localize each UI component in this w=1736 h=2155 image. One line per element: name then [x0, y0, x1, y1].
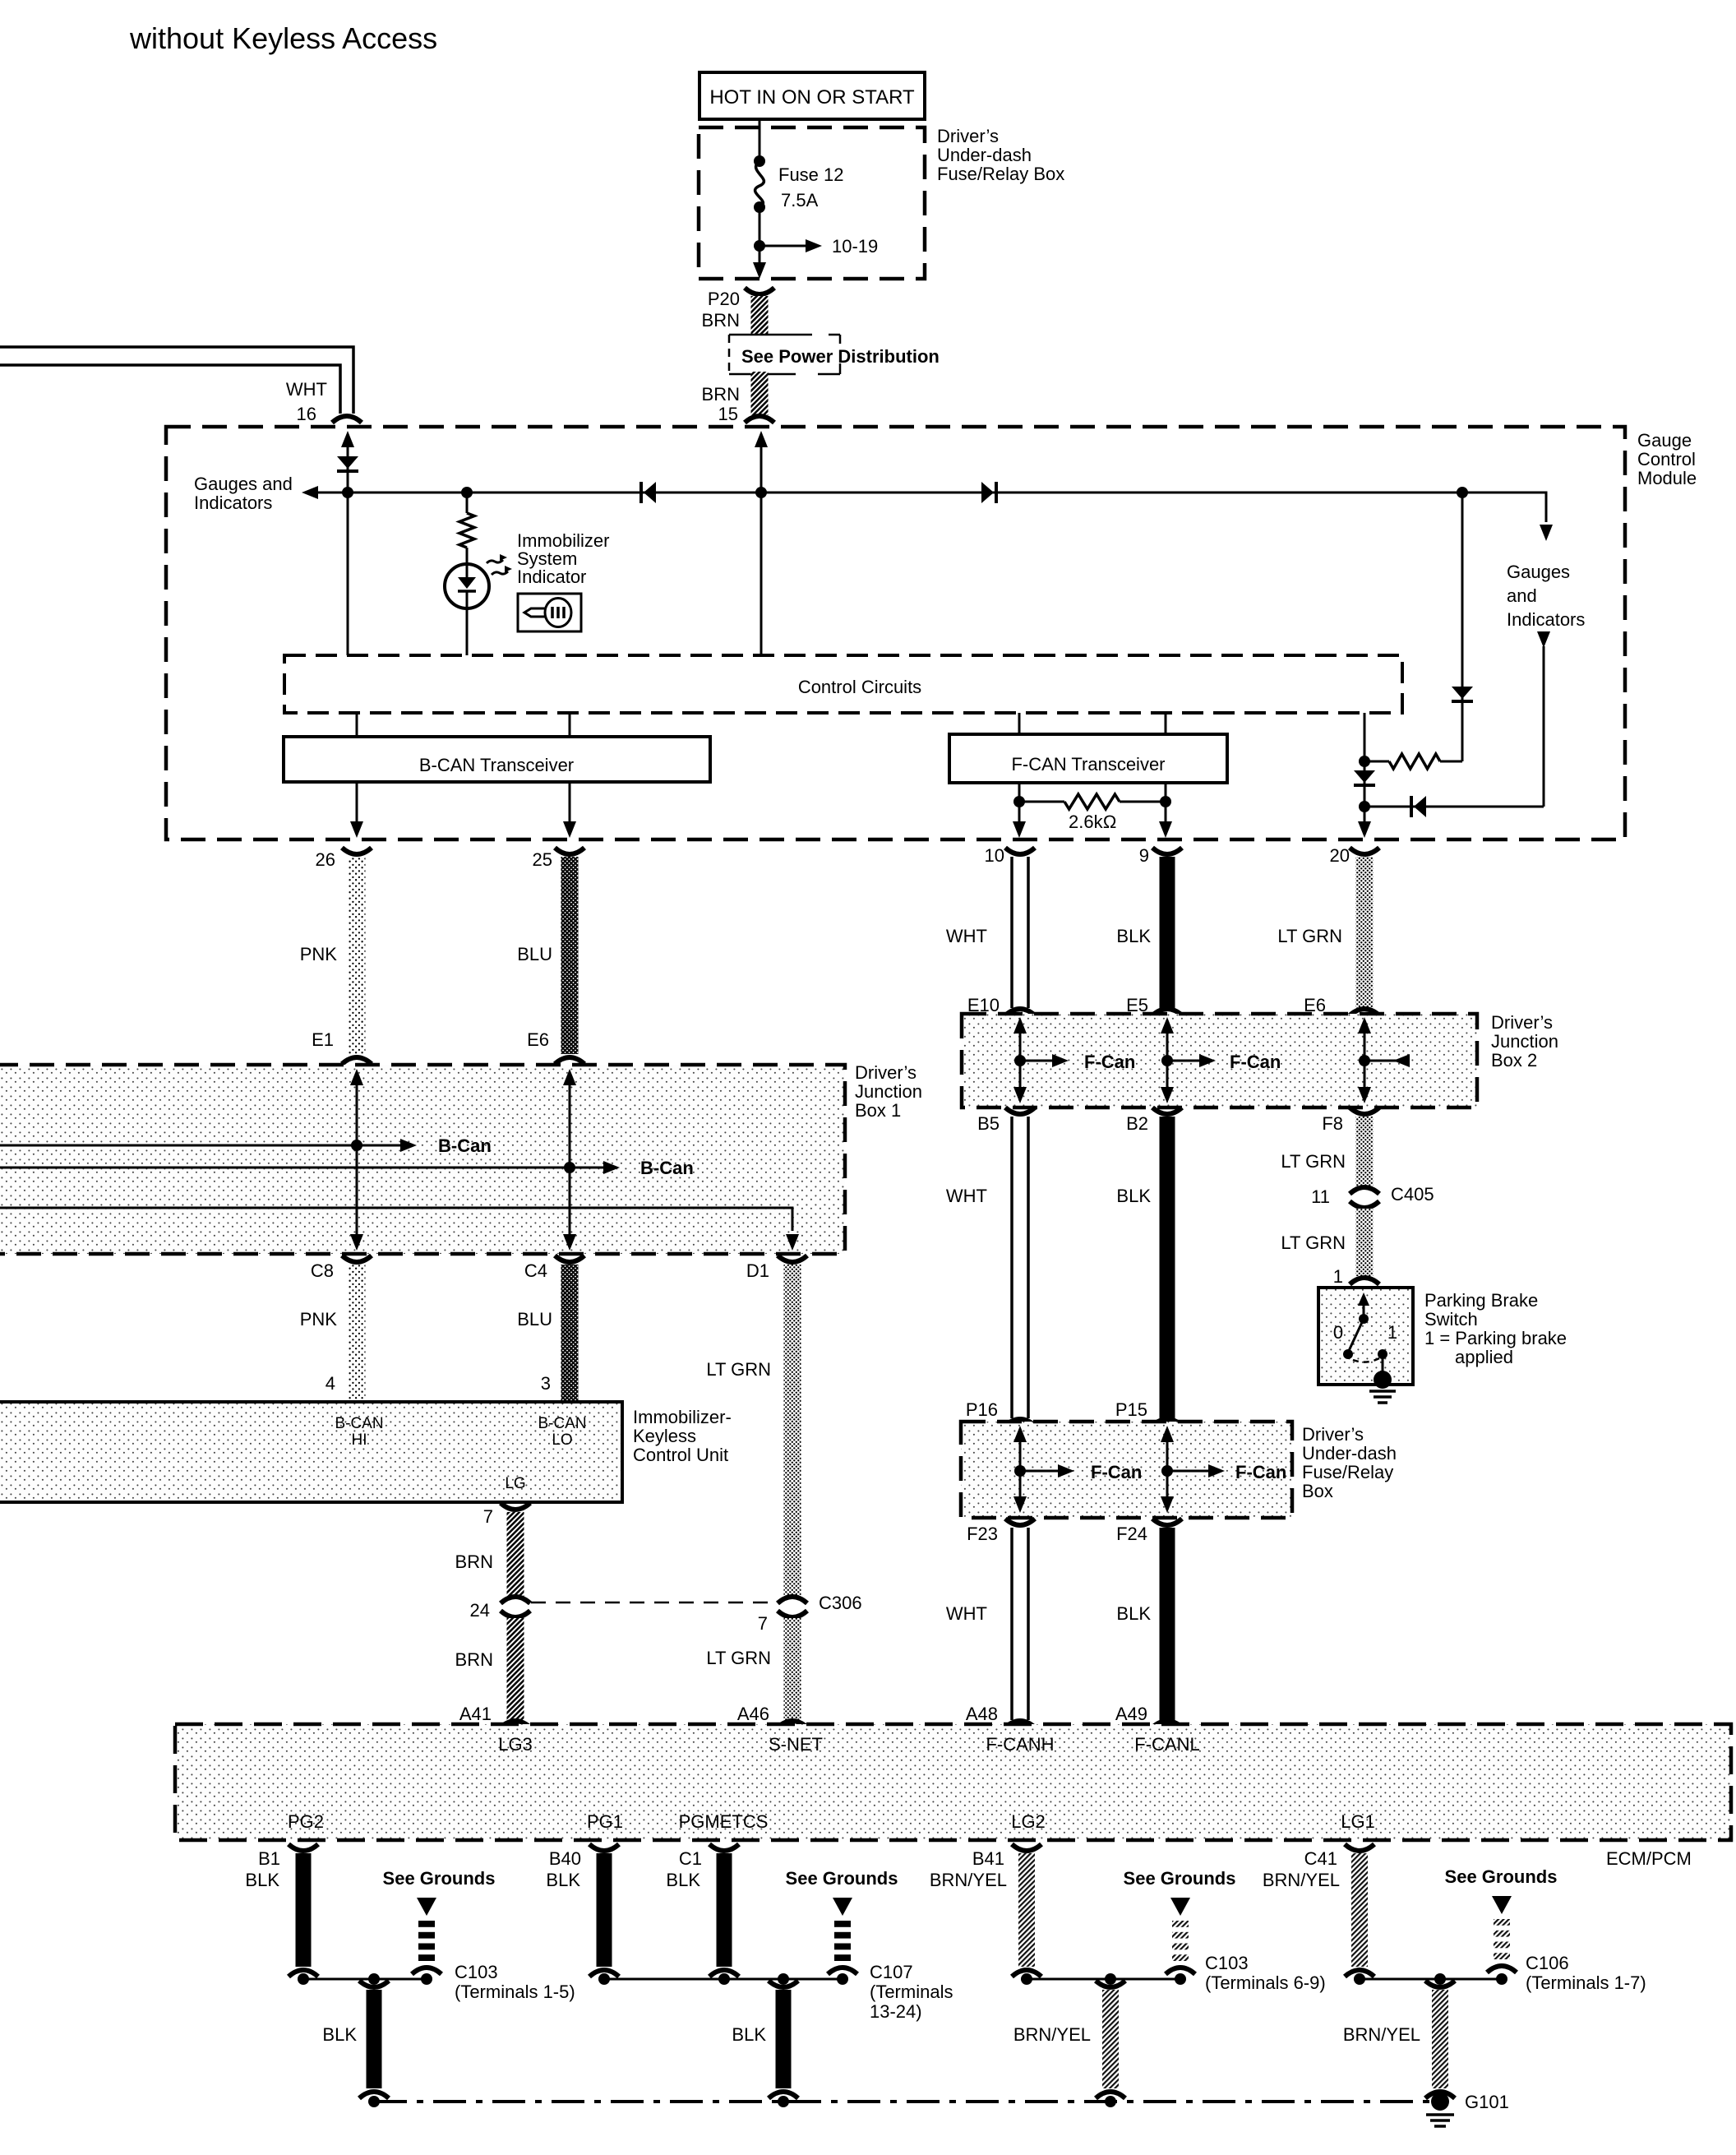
svg-text:C1: C1 — [679, 1848, 702, 1869]
svg-text:LT GRN: LT GRN — [1281, 1151, 1346, 1172]
wire drop1 BLK — [367, 1990, 382, 2088]
diode on bus left — [644, 482, 656, 503]
ground link line 1 — [303, 1978, 429, 1981]
wire pin15 branch — [755, 431, 768, 447]
wire from HOT to fuse — [759, 119, 761, 161]
wire cc to b-can left — [356, 713, 358, 737]
connector B40 — [589, 1844, 619, 1851]
connector 20 — [1350, 848, 1379, 854]
svg-text:10-19: 10-19 — [832, 236, 878, 257]
connector C1 bottom — [709, 1970, 739, 1977]
svg-text:13-24): 13-24) — [870, 2001, 922, 2022]
svg-text:1 = Parking brake: 1 = Parking brake — [1424, 1328, 1567, 1348]
wire diode branch vertical — [1461, 493, 1464, 761]
ground stub 3 — [1172, 1921, 1189, 1927]
svg-text:B2: B2 — [1126, 1113, 1148, 1134]
svg-text:C41: C41 — [1304, 1848, 1337, 1869]
svg-text:F-CAN Transceiver: F-CAN Transceiver — [1011, 754, 1165, 775]
connector drop2 bottom — [769, 2092, 798, 2098]
ground stub triangle 3 — [1170, 1898, 1190, 1916]
wire 25 BLU — [561, 857, 579, 1054]
svg-text:Driver’s: Driver’s — [855, 1062, 916, 1083]
connector C8 — [342, 1256, 372, 1262]
ground stub 4 — [1494, 1919, 1510, 1926]
wire 26 PNK — [349, 857, 366, 1054]
node g2 — [598, 1973, 610, 1985]
svg-text:F-Can: F-Can — [1084, 1052, 1135, 1072]
svg-text:and: and — [1507, 585, 1537, 606]
svg-text:F8: F8 — [1322, 1113, 1343, 1134]
resistor R-pullup — [1364, 761, 1389, 763]
connector pin 7 — [501, 1503, 530, 1510]
svg-text:11: 11 — [1311, 1186, 1330, 1207]
svg-text:(Terminals 6-9): (Terminals 6-9) — [1205, 1972, 1326, 1993]
wire C1 BLK — [717, 1853, 732, 1967]
connector stub4 — [1487, 1966, 1517, 1972]
node jb2 right — [1359, 1055, 1370, 1066]
connector C41 — [1345, 1844, 1374, 1851]
svg-text:Fuse/Relay: Fuse/Relay — [1302, 1462, 1393, 1482]
connector stub3 — [1166, 1968, 1195, 1974]
svg-text:Indicators: Indicators — [194, 493, 272, 513]
wire f-can to pin 10 — [1018, 783, 1021, 834]
svg-text:C306: C306 — [819, 1593, 862, 1613]
svg-text:BRN: BRN — [455, 1552, 493, 1572]
svg-text:F-Can: F-Can — [1230, 1052, 1281, 1072]
connector drop1 bottom — [359, 2092, 389, 2098]
driver's under-dash fuse/relay box (lower) — [961, 1422, 1292, 1518]
arrow f-can 3 (incoming) — [1364, 1060, 1407, 1062]
ground symbol (switch) — [1369, 1390, 1396, 1393]
connector P20 — [745, 288, 774, 294]
wire b-can to pin 25 — [569, 782, 571, 834]
svg-text:LO: LO — [552, 1431, 572, 1449]
svg-text:BRN: BRN — [455, 1649, 493, 1670]
svg-text:WHT: WHT — [946, 1603, 987, 1624]
svg-text:PNK: PNK — [300, 944, 338, 964]
fuse F12 7.5A — [754, 155, 765, 167]
svg-text:15: 15 — [718, 404, 738, 424]
svg-text:D1: D1 — [746, 1260, 769, 1281]
ground stub triangle 2 — [833, 1898, 852, 1916]
svg-text:LG3: LG3 — [498, 1734, 533, 1755]
key icon — [518, 594, 581, 631]
wire 20 LT GRN — [1356, 857, 1374, 1008]
svg-text:B5: B5 — [977, 1113, 1000, 1134]
switch ground dot — [1374, 1371, 1392, 1389]
connector B5 — [1005, 1108, 1035, 1114]
arrow f-can 5 — [1167, 1470, 1219, 1473]
svg-text:Box 1: Box 1 — [855, 1100, 901, 1121]
svg-text:BLK: BLK — [1116, 1186, 1151, 1206]
connector B40 bottom — [589, 1970, 619, 1977]
node r-term left — [1013, 796, 1025, 807]
svg-text:1: 1 — [1387, 1322, 1397, 1343]
arrow f-can 1 — [1020, 1060, 1063, 1062]
svg-text:BLK: BLK — [245, 1870, 279, 1890]
node bus mid2 — [1105, 2096, 1116, 2107]
gauge control module box — [166, 427, 1625, 839]
wire cc to f-can left — [1018, 713, 1021, 734]
ground stub 1 — [418, 1921, 435, 1927]
b-can bus line 2 — [0, 1167, 614, 1169]
svg-text:LT GRN: LT GRN — [706, 1648, 771, 1668]
connector 15 — [745, 416, 774, 423]
ground G101 — [1431, 2093, 1449, 2111]
svg-text:Box: Box — [1302, 1481, 1333, 1501]
connector stub2 — [828, 1968, 857, 1974]
wire 7 BRN — [507, 1512, 524, 1599]
svg-text:(Terminals: (Terminals — [870, 1982, 953, 2002]
switch lever — [1348, 1319, 1364, 1353]
wire F8 LT GRN — [1356, 1117, 1374, 1188]
node b-can 2 — [564, 1162, 575, 1173]
driver's junction box 2 — [962, 1014, 1477, 1108]
svg-text:G101: G101 — [1465, 2092, 1509, 2112]
wire D1 LT GRN upper — [784, 1265, 801, 1599]
ground bus wire — [374, 2100, 1440, 2103]
svg-text:BLK: BLK — [546, 1870, 580, 1890]
wire C41 BRN/YEL — [1351, 1853, 1368, 1967]
svg-text:WHT: WHT — [946, 926, 987, 946]
b-can transceiver U-BCAN — [284, 737, 710, 782]
svg-text:C107: C107 — [870, 1962, 913, 1982]
svg-text:F-Can: F-Can — [1091, 1462, 1142, 1482]
svg-text:C103: C103 — [1205, 1953, 1249, 1973]
connector A46 — [778, 1721, 807, 1727]
connector stub1 — [412, 1968, 441, 1974]
connector B1 bottom — [289, 1970, 318, 1977]
connector drop3 bottom — [1096, 2092, 1125, 2098]
switch common node — [1359, 1314, 1369, 1324]
svg-text:PG1: PG1 — [587, 1811, 623, 1832]
svg-text:Indicator: Indicator — [517, 566, 586, 587]
wire pin16 branch — [341, 431, 354, 447]
svg-text:(Terminals 1-5): (Terminals 1-5) — [455, 1982, 575, 2002]
wire P20 BRN segment — [751, 296, 769, 335]
connector A48 — [1005, 1721, 1035, 1727]
connector 9 — [1152, 848, 1182, 854]
svg-text:applied: applied — [1455, 1347, 1513, 1367]
connector E1 — [342, 1057, 372, 1064]
connector 26 — [342, 848, 372, 854]
svg-text:Gauges: Gauges — [1507, 562, 1570, 582]
svg-text:LT GRN: LT GRN — [706, 1359, 771, 1380]
svg-text:7: 7 — [483, 1506, 493, 1527]
see power distribution callout — [728, 335, 731, 374]
wire C8 PNK — [349, 1265, 366, 1400]
wire jb2 e5-b2 — [1161, 1017, 1174, 1034]
arrow f-can 4 — [1020, 1470, 1069, 1473]
svg-text:WHT: WHT — [946, 1186, 987, 1206]
connector drop2 top — [769, 1981, 798, 1987]
svg-text:BLK: BLK — [1116, 926, 1151, 946]
svg-text:Box 2: Box 2 — [1491, 1050, 1537, 1071]
ground link line 4 — [1360, 1978, 1504, 1981]
svg-text:B-Can: B-Can — [640, 1158, 694, 1178]
connector P15 — [1152, 1419, 1182, 1426]
svg-text:P15: P15 — [1115, 1399, 1147, 1420]
svg-text:BLK: BLK — [666, 1870, 700, 1890]
wire jb1 e6-c4 — [563, 1069, 576, 1085]
svg-text:B-CAN: B-CAN — [335, 1415, 383, 1432]
svg-text:Under-dash: Under-dash — [937, 145, 1032, 165]
switch wire in — [1358, 1293, 1369, 1306]
svg-text:E1: E1 — [312, 1029, 334, 1050]
node g3 — [1021, 1973, 1032, 1985]
svg-text:Driver’s: Driver’s — [937, 126, 999, 146]
node ud2 right — [1161, 1465, 1173, 1477]
ground link line 3 — [1027, 1978, 1183, 1981]
svg-text:LG2: LG2 — [1011, 1811, 1046, 1832]
svg-text:4: 4 — [325, 1373, 335, 1394]
svg-text:PNK: PNK — [300, 1309, 338, 1330]
ground stub triangle 4 — [1492, 1896, 1512, 1914]
wire B41 BRN/YEL — [1018, 1853, 1035, 1967]
node ud2 left — [1014, 1465, 1026, 1477]
svg-text:P16: P16 — [966, 1399, 998, 1420]
svg-text:BRN/YEL: BRN/YEL — [930, 1870, 1007, 1890]
svg-text:F-Can: F-Can — [1235, 1462, 1286, 1482]
svg-text:ECM/PCM: ECM/PCM — [1606, 1848, 1692, 1869]
svg-text:LG1: LG1 — [1341, 1811, 1375, 1832]
svg-text:9: 9 — [1139, 845, 1149, 866]
LED immobilizer indicator — [445, 564, 489, 608]
switch contact 1 — [1378, 1349, 1387, 1359]
svg-text:7.5A: 7.5A — [781, 190, 819, 210]
wire C4 BLU — [561, 1265, 579, 1400]
svg-text:LG: LG — [505, 1475, 525, 1492]
svg-text:See Grounds: See Grounds — [1445, 1866, 1558, 1887]
svg-text:10: 10 — [985, 845, 1004, 866]
svg-text:26: 26 — [316, 849, 335, 870]
wire LED to control circuits — [466, 608, 469, 655]
wire F23 WHT — [1010, 1528, 1013, 1720]
svg-text:Keyless: Keyless — [633, 1426, 696, 1446]
svg-text:BRN: BRN — [702, 310, 740, 331]
svg-text:2.6kΩ: 2.6kΩ — [1069, 812, 1116, 832]
svg-text:Driver’s: Driver’s — [1302, 1424, 1364, 1445]
svg-text:7: 7 — [758, 1613, 768, 1634]
wire BRN to pin 15 — [751, 372, 769, 415]
svg-text:P20: P20 — [708, 289, 740, 309]
resistor R-ind — [459, 513, 474, 548]
wire drop3 BRN/YEL — [1102, 1990, 1119, 2088]
wire b-can to pin 26 — [356, 782, 358, 834]
connector B41 — [1012, 1844, 1041, 1851]
svg-text:B40: B40 — [549, 1848, 581, 1869]
svg-text:B-CAN Transceiver: B-CAN Transceiver — [419, 755, 574, 775]
wire fuse to pin P20 — [759, 207, 761, 275]
svg-text:3: 3 — [541, 1373, 551, 1394]
connector A49 — [1152, 1721, 1182, 1727]
svg-text:WHT: WHT — [286, 379, 327, 400]
svg-text:C8: C8 — [311, 1260, 334, 1281]
svg-text:BLK: BLK — [1116, 1603, 1151, 1624]
wire 10 WHT — [1010, 857, 1013, 1008]
svg-text:PGMETCS: PGMETCS — [679, 1811, 769, 1832]
svg-text:Gauge: Gauge — [1637, 430, 1692, 451]
svg-text:BRN/YEL: BRN/YEL — [1013, 2024, 1091, 2045]
wire WHT from left (pin 16) — [0, 347, 353, 414]
wire 9 BLK — [1160, 857, 1175, 1008]
svg-text:Immobilizer-: Immobilizer- — [633, 1407, 732, 1427]
ecm/pcm box — [175, 1724, 1731, 1840]
svg-text:See Grounds: See Grounds — [786, 1868, 898, 1889]
svg-text:B-CAN: B-CAN — [538, 1415, 586, 1432]
connector C1 — [709, 1844, 739, 1851]
connector F8 — [1350, 1108, 1379, 1114]
resistor 2.6k — [1019, 801, 1064, 803]
wire drop4 BRN/YEL — [1432, 1990, 1448, 2088]
c306 dashed link — [531, 1602, 773, 1604]
svg-text:1: 1 — [1333, 1266, 1343, 1287]
svg-text:A48: A48 — [966, 1704, 998, 1724]
connector D1 — [778, 1256, 807, 1262]
b-can bus line 1 — [0, 1145, 411, 1147]
svg-text:Under-dash: Under-dash — [1302, 1443, 1397, 1464]
driver's junction box 1 — [0, 1065, 845, 1254]
node jb2 mid — [1161, 1055, 1173, 1066]
wire B1 BLK — [296, 1853, 312, 1967]
ground link line 2 — [604, 1978, 845, 1981]
connector 1 (switch) — [1350, 1278, 1379, 1284]
svg-text:Indicators: Indicators — [1507, 609, 1585, 630]
connector drop4 top — [1425, 1981, 1455, 1987]
node pin15 cross — [755, 487, 767, 498]
connector E6 — [555, 1057, 584, 1064]
svg-text:F23: F23 — [967, 1524, 998, 1544]
connector E6 (jb2) — [1350, 1009, 1379, 1015]
node jb2 left — [1014, 1055, 1026, 1066]
svg-text:See Power Distribution: See Power Distribution — [741, 346, 940, 367]
wire B40 BLK — [597, 1853, 612, 1967]
connector 10 — [1005, 848, 1035, 854]
svg-text:20: 20 — [1330, 845, 1350, 866]
svg-text:Switch: Switch — [1424, 1309, 1478, 1330]
svg-text:HOT IN ON OR START: HOT IN ON OR START — [709, 86, 915, 109]
svg-text:S-NET: S-NET — [769, 1734, 823, 1755]
connector P16 — [1005, 1419, 1035, 1426]
connector F23 — [1005, 1519, 1035, 1525]
connector 7 C306 (lt grn) — [778, 1597, 807, 1603]
diode D-ind — [1414, 796, 1426, 817]
svg-text:LT GRN: LT GRN — [1277, 926, 1342, 946]
node bus left — [368, 2096, 380, 2107]
svg-text:Control Circuits: Control Circuits — [798, 677, 921, 697]
svg-text:F-CANH: F-CANH — [986, 1734, 1054, 1755]
wire 24 BRN lower — [507, 1618, 524, 1720]
svg-text:BLK: BLK — [732, 2024, 766, 2045]
svg-text:(Terminals 1-7): (Terminals 1-7) — [1526, 1972, 1646, 1993]
diode D-pin20 — [1354, 770, 1375, 783]
node r-term right — [1160, 796, 1171, 807]
svg-text:C106: C106 — [1526, 1953, 1569, 1973]
svg-text:BRN/YEL: BRN/YEL — [1263, 1870, 1340, 1890]
wire to LED — [466, 548, 469, 564]
svg-text:BLK: BLK — [322, 2024, 357, 2045]
svg-text:Parking Brake: Parking Brake — [1424, 1290, 1538, 1311]
LED light rays — [487, 560, 503, 563]
svg-text:B1: B1 — [258, 1848, 280, 1869]
node diode branch — [1457, 487, 1468, 498]
switch dashed arc — [1353, 1358, 1379, 1362]
connector E10 — [1005, 1009, 1035, 1015]
diode D-branch — [1452, 687, 1473, 699]
svg-text:See Grounds: See Grounds — [1124, 1868, 1236, 1889]
svg-text:Fuse/Relay Box: Fuse/Relay Box — [937, 164, 1064, 184]
node bus mid1 — [778, 2096, 789, 2107]
f-can transceiver U-FCAN — [949, 734, 1227, 783]
power label HOT IN ON OR START — [699, 72, 925, 119]
connector B1 — [289, 1844, 318, 1851]
svg-text:BRN: BRN — [702, 384, 740, 405]
svg-text:A49: A49 — [1115, 1704, 1147, 1724]
svg-text:C4: C4 — [524, 1260, 547, 1281]
wire D1 LT GRN lower — [784, 1618, 801, 1720]
svg-text:Module: Module — [1637, 468, 1697, 488]
connector E5 — [1152, 1009, 1182, 1015]
wire right corner down — [1539, 493, 1546, 522]
svg-text:Control: Control — [1637, 449, 1696, 469]
junction to 10-19 — [754, 240, 765, 252]
wire cc to pin 20 — [1364, 713, 1366, 834]
connector 16 — [332, 416, 362, 423]
svg-text:E6: E6 — [527, 1029, 549, 1050]
connector 25 — [555, 848, 584, 854]
wire ud2 p15-f24 — [1161, 1426, 1174, 1442]
driver's under-dash fuse/relay box (top) — [699, 127, 925, 279]
svg-text:PG2: PG2 — [288, 1811, 324, 1832]
diode on bus right — [981, 482, 994, 503]
connector A41 — [501, 1721, 530, 1727]
wire F24 BLK — [1160, 1528, 1175, 1720]
node b-can 1 — [351, 1140, 362, 1151]
svg-text:BLU: BLU — [517, 1309, 552, 1330]
svg-text:Junction: Junction — [855, 1081, 922, 1102]
immobilizer-keyless control unit box — [0, 1402, 622, 1502]
gauges and indicators bus (left) — [312, 492, 1539, 494]
ground stub triangle 1 — [417, 1898, 436, 1916]
connector drop4 bottom — [1425, 2092, 1455, 2098]
wire cc to b-can right — [569, 713, 571, 737]
connector C4 — [555, 1256, 584, 1262]
svg-text:24: 24 — [470, 1600, 490, 1621]
node resistor branch — [461, 487, 473, 498]
svg-text:BRN/YEL: BRN/YEL — [1343, 2024, 1420, 2045]
wire f-can to pin 9 — [1165, 783, 1167, 834]
connector 24 C306 — [501, 1597, 530, 1603]
wire jb2 e10-b5 — [1013, 1017, 1027, 1034]
svg-text:See Grounds: See Grounds — [383, 1868, 496, 1889]
connector drop1 top — [359, 1981, 389, 1987]
node g4 — [1354, 1973, 1365, 1985]
connector drop3 top — [1096, 1981, 1125, 1987]
wire jb2 e6-f8 — [1358, 1017, 1371, 1034]
connector 11 C405 — [1350, 1187, 1379, 1194]
wire right indicator branch — [1543, 646, 1545, 807]
node pin20 resistor — [1359, 756, 1370, 767]
connector B2 — [1152, 1108, 1182, 1114]
svg-text:C103: C103 — [455, 1962, 498, 1982]
node g1a — [298, 1973, 309, 1985]
node pin20 lower — [1359, 801, 1370, 812]
wire jb1 e1-c8 — [350, 1069, 363, 1085]
switch to ground — [1382, 1354, 1384, 1376]
wire cc to f-can right — [1165, 713, 1167, 734]
svg-text:B41: B41 — [972, 1848, 1004, 1869]
svg-text:B-Can: B-Can — [438, 1135, 492, 1156]
